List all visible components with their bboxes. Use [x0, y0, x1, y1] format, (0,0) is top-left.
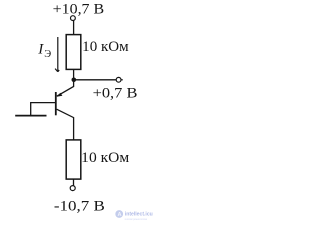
collector lead — [57, 109, 74, 140]
svg-text:-10,7 В: -10,7 В — [54, 198, 105, 214]
svg-text:10 кОм: 10 кОм — [82, 39, 129, 55]
svg-text:+0,7 В: +0,7 В — [93, 85, 138, 101]
wire R2 to bottom terminal — [73, 179, 75, 186]
wire R1 to node A — [73, 69, 75, 80]
resistor R2 — [66, 140, 81, 179]
svg-text:интеллектуальная система: интеллектуальная система — [125, 218, 147, 221]
wire node A to output terminal — [74, 79, 116, 81]
watermark logo intellect.icu — [115, 210, 153, 221]
svg-text:A: A — [118, 212, 122, 218]
svg-text:I: I — [37, 41, 44, 57]
svg-text:+10,7 В: +10,7 В — [53, 2, 105, 18]
base wire — [31, 103, 56, 116]
node A junction dot — [72, 78, 77, 83]
svg-text:intellect.icu: intellect.icu — [125, 212, 153, 218]
emitter lead — [57, 80, 74, 96]
svg-text:Э: Э — [44, 49, 51, 60]
terminal -10,7 V — [70, 186, 75, 191]
transistor VT1 PNP — [56, 80, 74, 140]
emitter arrow (points to base: PNP) — [57, 93, 63, 97]
terminal +10,7 V — [71, 16, 76, 21]
current arrow I_e — [55, 37, 59, 72]
resistor R1 — [66, 35, 81, 70]
terminal +0,7 V with stub — [116, 77, 123, 82]
wire terminal to R1 — [73, 21, 75, 35]
base bar — [55, 92, 57, 115]
ground — [15, 115, 46, 117]
svg-text:10 кОм: 10 кОм — [81, 150, 129, 166]
